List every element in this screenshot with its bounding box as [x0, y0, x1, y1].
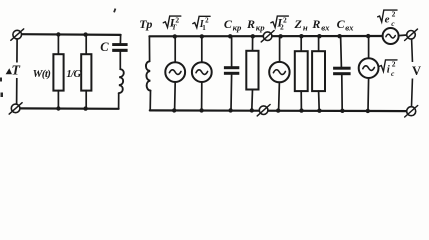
node: i_c bottom junction dot	[366, 109, 370, 113]
wire: i_1 source bottom stub	[201, 82, 203, 110]
node: i_2 top junction dot	[278, 34, 282, 38]
svg-text:н: н	[303, 23, 308, 33]
wire: e_c source to top-right terminal	[399, 34, 407, 37]
svg-text:1/G: 1/G	[66, 69, 81, 80]
wire: left top bus	[21, 33, 120, 36]
wire: coil to bottom bus corner	[118, 93, 120, 109]
wire: 1/G bottom stub	[85, 91, 87, 109]
terminal: output top (crossed circle)	[405, 29, 418, 40]
wire: i_c source bottom stub	[367, 78, 370, 111]
node: i_1 top junction dot	[200, 34, 204, 38]
label: Z_n	[294, 17, 308, 33]
wire: middle/right top bus	[149, 35, 383, 37]
capacitor C_kr top plate	[224, 66, 239, 69]
node: i_2 bottom junction dot	[276, 108, 280, 112]
wire: Z_n bottom stub	[300, 91, 302, 111]
node: R_vx bottom junction dot	[317, 109, 321, 113]
svg-text:c: c	[391, 69, 395, 78]
label: delta-T	[5, 63, 23, 79]
label: sqrt(I_T^2)	[163, 15, 181, 31]
wire: Tp branch top	[148, 36, 150, 61]
AC source i_1 (circle with sine)	[192, 62, 212, 82]
wire: between capacitor and coil	[119, 52, 121, 70]
wire: C_vx top stub	[340, 36, 343, 67]
label: R_vx	[311, 17, 330, 33]
svg-text:1: 1	[202, 24, 206, 32]
inductor coil (left network, bumps right)	[119, 69, 124, 93]
wire: left vertical (input)	[16, 39, 19, 104]
wire: R_vx bottom stub	[318, 91, 321, 111]
resistor box R_vx	[312, 51, 325, 91]
node: i_T top junction dot	[173, 34, 177, 38]
wire: right edge vertical	[412, 39, 413, 66]
svg-text:C: C	[100, 40, 109, 54]
wire: R_vx top stub	[318, 36, 320, 51]
node: R_kr top junction dot	[251, 34, 255, 38]
node: W(t) bottom junction dot	[56, 106, 60, 110]
svg-text:2: 2	[280, 23, 284, 32]
terminal: output bottom (crossed circle)	[405, 106, 418, 118]
wire: C branch top corner down to capacitor	[119, 35, 121, 44]
wire: Tp coil to bottom bus	[149, 91, 151, 111]
wire: C_vx bottom stub	[341, 75, 343, 111]
AC source i_T (circle with sine)	[165, 62, 185, 82]
svg-text:c: c	[391, 19, 395, 28]
wire: R_kr bottom stub	[251, 90, 254, 111]
svg-text:кр: кр	[256, 23, 265, 33]
node: i_T bottom junction dot	[172, 108, 176, 112]
scan speck left edge	[0, 78, 2, 82]
resistor box R_kr	[246, 51, 258, 90]
svg-text:C: C	[224, 17, 233, 31]
node: R_vx top junction dot	[317, 34, 321, 38]
scan speck left edge lower	[1, 93, 4, 98]
terminal: input bottom (crossed circle)	[9, 103, 22, 114]
wire: Z_n top stub	[300, 36, 302, 51]
resistor box Z_n	[295, 51, 308, 91]
svg-text:V: V	[412, 64, 421, 78]
svg-text:Z: Z	[294, 17, 303, 31]
wire: left bottom bus	[20, 107, 119, 110]
wire: C_kr bottom stub	[230, 75, 233, 111]
node: R_kr bottom junction dot	[250, 108, 254, 112]
wire: i_T source bottom stub	[174, 82, 177, 110]
resistor box W(t)	[53, 54, 63, 90]
scan speck top middle	[113, 8, 116, 12]
node: i_1 bottom junction dot	[199, 108, 203, 112]
node: Z_n top junction dot	[299, 34, 303, 38]
svg-text:R: R	[246, 17, 255, 31]
wire: i_c source top stub	[368, 36, 370, 58]
capacitor C_vx bottom plate	[333, 72, 351, 75]
wire: i_2 source bottom stub	[278, 82, 281, 110]
AC source i_2 (circle with sine)	[269, 62, 289, 82]
node: Z_n bottom junction dot	[299, 108, 303, 112]
wire: middle/right bottom bus	[150, 109, 408, 112]
node: C_kr bottom junction dot	[228, 108, 232, 112]
svg-text:кр: кр	[233, 23, 242, 33]
svg-text:2: 2	[392, 59, 396, 68]
node: 1/G top junction dot	[83, 32, 87, 36]
label: sqrt(e_c^2)	[378, 10, 397, 28]
svg-text:Тр: Тр	[139, 17, 152, 31]
capacitor C bottom plate	[112, 49, 127, 52]
resistor box 1/G branch: top stub	[85, 34, 87, 54]
capacitor C_kr bottom plate	[224, 72, 239, 75]
AC source e_c (circle with sine, in series on top bus)	[383, 28, 399, 44]
node: W(t) top junction dot	[56, 32, 60, 36]
svg-text:e: e	[385, 14, 390, 26]
node: C_vx top junction dot	[337, 34, 341, 38]
resistor box W(t) branch: top stub	[57, 34, 59, 54]
svg-text:C: C	[337, 17, 346, 31]
wire: R_kr top stub	[252, 36, 254, 51]
svg-text:W(t): W(t)	[33, 68, 51, 80]
label: C_kr	[224, 17, 242, 33]
wire: W(t) bottom stub	[57, 91, 59, 109]
wire: i_2 source top stub	[279, 36, 281, 62]
resistor box 1/G	[81, 54, 91, 90]
svg-text:R: R	[311, 17, 320, 31]
terminal: input top (crossed circle)	[11, 29, 24, 40]
label: R_kr	[246, 17, 265, 33]
transformer coil Tp (bumps left)	[146, 61, 151, 90]
svg-text:2: 2	[392, 10, 396, 19]
svg-text:T: T	[11, 64, 21, 79]
label: sqrt(i_c^2) beside source	[379, 59, 397, 78]
wire: C_kr top stub	[231, 36, 233, 66]
node: C_vx bottom junction dot	[340, 109, 344, 113]
label: sqrt(I_2^2)	[271, 15, 289, 31]
wire: i_T source top stub	[174, 36, 176, 62]
capacitor C_vx top plate	[333, 67, 351, 70]
label: C_vx	[337, 17, 355, 33]
node: C_kr top junction dot	[228, 34, 232, 38]
svg-text:T: T	[172, 23, 177, 32]
svg-text:вх: вх	[321, 23, 330, 33]
label: V (over right edge wire)	[409, 62, 423, 79]
node: 1/G bottom junction dot	[83, 106, 87, 110]
AC source i_c (circle with sine)	[359, 58, 379, 78]
svg-text:вх: вх	[345, 23, 354, 33]
label: sqrt(I_1^2)	[193, 16, 210, 32]
node: i_c top junction dot	[366, 34, 370, 38]
terminal: middle-right bottom (crossed circle on bus)	[257, 105, 270, 116]
wire: i_1 source top stub	[201, 36, 203, 62]
capacitor C top plate	[112, 43, 127, 46]
terminal: middle-right top (crossed circle on bus)	[261, 31, 274, 42]
